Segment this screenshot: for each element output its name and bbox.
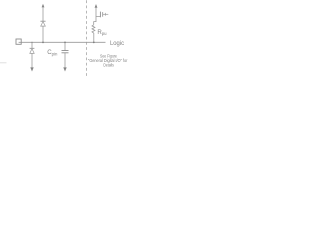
capacitor Cpin bottom plate — [62, 52, 69, 54]
dashed chip boundary — [86, 0, 88, 77]
wire — [96, 7, 100, 16]
diode D2 triangle — [30, 49, 34, 54]
wire — [31, 53, 33, 68]
node junction — [31, 42, 32, 43]
capacitor Cpin branch wire — [64, 42, 66, 50]
switch contact bar — [99, 12, 101, 18]
diode D2 cathode bar — [30, 47, 35, 49]
diode D1 cathode bar — [40, 20, 45, 22]
lower diode branch wire — [31, 42, 33, 48]
wire — [64, 53, 66, 69]
background — [0, 0, 130, 77]
wire — [94, 17, 96, 25]
wire main rail — [19, 41, 106, 43]
node junction — [64, 42, 66, 44]
ground arrow — [30, 67, 33, 71]
svg-text:Logic: Logic — [110, 40, 125, 47]
switch control tick — [104, 13, 106, 16]
faint page artifact — [0, 62, 7, 63]
pin pad Pxn — [16, 39, 21, 44]
wire — [42, 26, 44, 42]
wire — [42, 7, 44, 21]
VCC arrow upper diode branch — [42, 4, 45, 8]
VCC arrow pull-up branch — [95, 4, 98, 8]
resistor Rpu zigzag — [92, 25, 95, 33]
node junction — [42, 42, 44, 44]
switch control line — [103, 13, 109, 15]
switch gate bar — [102, 12, 104, 17]
diode D1 triangle — [41, 22, 46, 27]
ground arrow — [63, 67, 66, 71]
svg-text:Details: Details — [103, 63, 114, 68]
capacitor Cpin top plate — [62, 50, 69, 52]
wire — [93, 33, 95, 42]
node junction — [93, 42, 95, 44]
